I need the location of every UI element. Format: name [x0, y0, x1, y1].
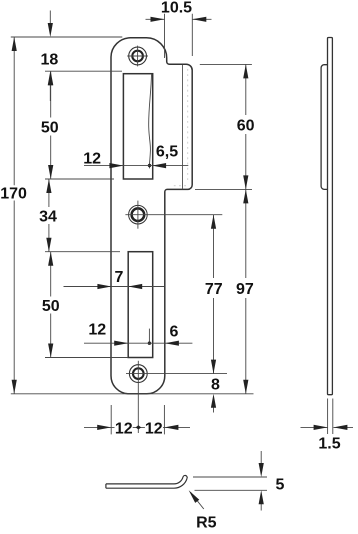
svg-text:60: 60 — [237, 117, 255, 134]
dimension 18 — [41, 11, 59, 102]
svg-text:R5: R5 — [196, 514, 217, 529]
extension line cutout1 top — [45, 70, 122, 72]
dimension 77 — [205, 215, 223, 374]
lip hidden dashed line — [171, 69, 188, 186]
dimension 34 — [39, 179, 57, 252]
side view plate — [328, 38, 333, 395]
dimension 1.5 — [301, 399, 354, 453]
dimension 12+12 bottom — [84, 405, 190, 437]
extension line step top right — [200, 63, 252, 65]
middle hole centerline extension right — [125, 214, 222, 216]
dot marker 2 — [148, 342, 151, 345]
dimension 50 lower — [42, 252, 60, 358]
svg-text:8: 8 — [211, 376, 220, 393]
svg-text:12: 12 — [145, 420, 163, 437]
svg-text:34: 34 — [39, 208, 57, 225]
R5 leader and label — [189, 490, 217, 531]
middle hole — [129, 201, 148, 229]
dimension 50 upper — [41, 71, 59, 179]
wavy latch line cutout 1 — [149, 74, 152, 168]
svg-text:97: 97 — [236, 281, 254, 298]
screw hole top — [127, 46, 148, 67]
dimension row1 12 / 6,5 — [83, 143, 188, 168]
plate outline front view — [111, 38, 192, 394]
extension line top tangent — [11, 36, 123, 38]
lip fold line — [182, 65, 184, 189]
extension line bottom tangent — [11, 393, 254, 395]
extension line cutout1 bottom — [45, 178, 114, 180]
svg-text:12: 12 — [88, 322, 106, 339]
dimension 97 — [236, 189, 254, 393]
dimension 60 — [237, 64, 255, 189]
svg-text:12: 12 — [83, 150, 101, 167]
extension line cutout2 bottom — [45, 357, 128, 359]
svg-text:10.5: 10.5 — [161, 0, 192, 17]
svg-text:7: 7 — [114, 269, 123, 286]
dimension 170 — [0, 37, 27, 394]
svg-text:1.5: 1.5 — [318, 436, 340, 453]
dimension 7 — [64, 269, 165, 289]
side view lip — [321, 65, 328, 190]
latch cutout 1 — [123, 74, 152, 179]
screw hole bottom — [129, 361, 147, 433]
svg-text:50: 50 — [41, 119, 59, 136]
dimension 5 — [193, 451, 285, 511]
svg-text:5: 5 — [276, 476, 285, 493]
tick line cutout 2 — [148, 329, 150, 345]
svg-text:6,5: 6,5 — [156, 143, 178, 160]
extension line step bottom right — [195, 188, 252, 190]
latch cutout 2 — [128, 252, 153, 358]
dimension 8 — [211, 376, 220, 412]
bottom detail strip — [106, 475, 187, 488]
svg-text:6: 6 — [170, 323, 179, 340]
dimension row2 12 / 6 — [84, 322, 192, 346]
dimension 10.5 — [146, 0, 212, 58]
svg-text:50: 50 — [42, 298, 60, 315]
svg-text:77: 77 — [205, 281, 223, 298]
svg-text:12: 12 — [115, 420, 133, 437]
extension line cutout2 top — [45, 251, 120, 253]
dot marker 1 — [148, 164, 151, 167]
svg-text:170: 170 — [0, 186, 27, 203]
bottom hole centerline extension right — [126, 373, 227, 375]
svg-text:18: 18 — [41, 51, 59, 68]
